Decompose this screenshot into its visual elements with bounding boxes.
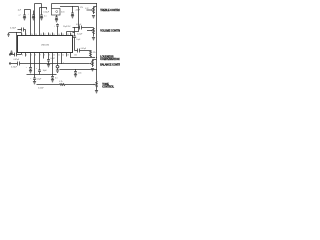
capacitor C10 0.01uF (78, 49, 80, 53)
potentiometer treble (93, 7, 97, 15)
svg-text:+10µF: +10µF (75, 10, 81, 12)
pin 11b stub bottom (57, 53, 59, 66)
svg-text:+: + (30, 78, 31, 80)
wire down to input lower (16, 33, 18, 55)
wire pin11 area to volume pot (73, 27, 94, 29)
svg-text:CONTROL: CONTROL (102, 86, 114, 89)
pin 8 stub bottom (43, 53, 45, 59)
resistor R2 (60, 84, 66, 86)
pin 13 stub top (61, 33, 63, 36)
capacitor C12 input1 (15, 53, 17, 57)
pin 19 stub top (34, 4, 36, 36)
ground (92, 38, 95, 40)
pin 18 stub top (39, 8, 41, 36)
svg-text:0.01µF: 0.01µF (81, 48, 86, 50)
terminal input1 (9, 54, 10, 55)
svg-text:13: 13 (67, 54, 69, 56)
capacitor C15 below rail (33, 75, 36, 82)
ground (23, 18, 26, 20)
svg-text:LM1036: LM1036 (41, 45, 50, 47)
capacitor C5 under box (55, 15, 58, 20)
wire bass wiper (37, 84, 60, 86)
terminal input2 (9, 63, 10, 64)
ground (40, 18, 43, 20)
wire rail drop to box (51, 4, 53, 9)
wire (65, 84, 94, 86)
svg-text:BALANCE CONTROL: BALANCE CONTROL (100, 64, 120, 67)
node (74, 27, 75, 28)
node pin13 drop (61, 63, 62, 64)
svg-text:0.22: 0.22 (85, 8, 88, 10)
svg-text:20: 20 (31, 34, 33, 36)
capacitor C17 ellipse (56, 66, 59, 68)
ground (29, 71, 32, 73)
wire right rail vertical (96, 4, 98, 82)
capacitor C16 below rail (51, 75, 54, 80)
svg-text:0.22µF: 0.22µF (76, 24, 81, 26)
wire input1 lower (11, 54, 22, 56)
wire rail top B (52, 3, 97, 5)
pin 1 stub top (25, 30, 27, 36)
resistor R1 47k (90, 51, 92, 58)
svg-text:10: 10 (53, 54, 55, 56)
pin 11 stub top (70, 33, 72, 36)
wire loudness cap (75, 50, 91, 52)
capacitor C20 (47, 60, 50, 65)
potentiometer bass zigzag (96, 82, 98, 91)
svg-text:11: 11 (71, 34, 73, 36)
pin 9 stub bottom (48, 53, 50, 60)
capacitor C19 inline (73, 36, 76, 38)
svg-text:10µF: 10µF (76, 39, 80, 41)
ground (55, 20, 58, 22)
wire input1 left (9, 32, 22, 34)
pin 3 stub bottom (21, 53, 23, 55)
svg-text:14: 14 (58, 34, 60, 36)
capacitor C2 (23, 15, 26, 18)
svg-text:11: 11 (58, 54, 60, 56)
pin 10 stub bottom (52, 53, 54, 75)
svg-text:12: 12 (67, 34, 69, 36)
pin 5 stub bottom (30, 53, 32, 68)
wire pin12 to V+ riser (67, 7, 79, 32)
svg-text:18: 18 (40, 34, 42, 36)
op-amp U1 tone/volume IC body (18, 36, 73, 53)
pin 15 stub top (52, 33, 54, 36)
wire bracket pin18 (40, 8, 47, 10)
capacitor C14 10uF (38, 70, 41, 75)
pin numbers bottom (22, 54, 69, 56)
pin 7 stub bottom (39, 53, 41, 71)
svg-text:0.22µF: 0.22µF (43, 11, 50, 13)
ground (74, 75, 77, 77)
pin 14b stub bottom (66, 53, 68, 57)
svg-text:0.047: 0.047 (50, 58, 55, 60)
svg-text:19: 19 (35, 34, 37, 36)
svg-text:0.01: 0.01 (78, 72, 81, 74)
ground (91, 69, 94, 71)
pin 12 stub top (66, 32, 68, 36)
svg-text:+2: +2 (18, 15, 20, 17)
svg-text:0.01: 0.01 (61, 12, 65, 14)
svg-text:0.47µF: 0.47µF (14, 59, 21, 61)
capacitor C8 supply (72, 6, 73, 7)
svg-text:+: + (36, 68, 37, 70)
svg-text:+: + (54, 25, 55, 27)
ground flipped (10, 51, 13, 55)
svg-text:12: 12 (62, 54, 64, 56)
arrow into bass pot (94, 84, 96, 85)
svg-text:+: + (28, 14, 29, 16)
pin 6 stub bottom (34, 53, 36, 75)
capacitor C18 0.01 (74, 70, 77, 75)
capacitor C3 (32, 11, 35, 18)
wire rail V+ (60, 6, 79, 8)
svg-text:COMPENSATION: COMPENSATION (100, 58, 119, 61)
wire pin bottom right to loudness (71, 53, 95, 58)
svg-text:16: 16 (49, 34, 51, 36)
wire rail bottom left (27, 74, 57, 76)
wire bracket pin20 (25, 10, 31, 16)
svg-text:17: 17 (44, 34, 46, 36)
pin 2 stub top (21, 33, 23, 36)
svg-text:4.7k: 4.7k (59, 81, 62, 83)
pin 16 stub top (48, 33, 50, 36)
pin 13 stub bottom drop (61, 53, 63, 64)
ground (47, 65, 50, 67)
pin 20 stub top (30, 10, 32, 36)
ground (95, 91, 98, 93)
svg-text:13: 13 (62, 34, 64, 36)
box filter block (52, 9, 61, 16)
svg-text:15: 15 (53, 34, 55, 36)
svg-text:0.1: 0.1 (44, 15, 47, 17)
svg-text:0.47µF: 0.47µF (11, 67, 18, 69)
svg-text:0.47µF: 0.47µF (38, 87, 45, 89)
ground (32, 18, 35, 20)
wire rail bottom right (60, 69, 97, 71)
capacitor C4 (40, 4, 43, 18)
wiper arrow (87, 9, 92, 11)
svg-text:VOLUME CONTROL: VOLUME CONTROL (100, 30, 120, 33)
node (75, 69, 76, 70)
ground (92, 16, 95, 18)
pin 17 stub top (43, 33, 45, 36)
capacitor C1 0.47uF input top (18, 29, 26, 31)
ground (33, 82, 36, 84)
capacitor C9 0.22uF inline (80, 26, 82, 30)
svg-text:0.47µF: 0.47µF (10, 28, 17, 30)
svg-text:25µF 25V: 25µF 25V (63, 26, 71, 28)
svg-text:10k: 10k (74, 55, 77, 57)
wire stub from IC (73, 32, 75, 34)
ground input1 terminal (7, 33, 9, 37)
ground (51, 80, 54, 82)
ground (71, 16, 74, 18)
svg-text:0.22µF: 0.22µF (77, 33, 82, 35)
potentiometer balance (92, 60, 97, 68)
pin 4 stub bottom (25, 53, 27, 57)
svg-text:+: + (26, 67, 27, 69)
wiper arrow (87, 30, 92, 32)
capacitor C11 input2 (18, 62, 20, 66)
node (96, 57, 97, 58)
svg-text:TREBLE CONTROL: TREBLE CONTROL (100, 9, 120, 12)
node A junction (16, 32, 17, 33)
pin 14 stub top (57, 26, 59, 36)
svg-text:47k: 47k (93, 52, 96, 54)
wiper arrow balance (90, 63, 92, 64)
wire rail top A (35, 3, 42, 5)
svg-text:+: + (63, 62, 64, 64)
wire input2 long (11, 63, 90, 65)
pin numbers top (22, 34, 73, 36)
ground (56, 70, 59, 72)
potentiometer volume (93, 28, 95, 37)
capacitor C7 25uF (56, 24, 59, 27)
svg-text:0.1: 0.1 (55, 77, 58, 79)
arrow into rail (94, 57, 96, 58)
wire from volume node down (74, 28, 76, 51)
